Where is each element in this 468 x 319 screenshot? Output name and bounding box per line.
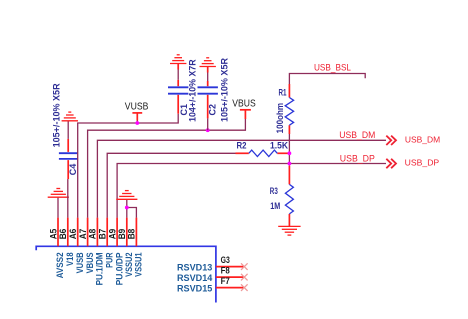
svg-text:RSVD13: RSVD13	[177, 263, 212, 273]
svg-text:105+/-10% X5R: 105+/-10% X5R	[220, 58, 230, 122]
pin B6 stub	[67, 218, 69, 247]
capacitor C1 plates	[168, 87, 188, 93]
VUSB power flag	[132, 113, 142, 121]
svg-text:104+/-10% X7R: 104+/-10% X7R	[188, 59, 198, 122]
svg-text:1.5K: 1.5K	[270, 141, 288, 151]
svg-text:B9: B9	[117, 229, 127, 240]
svg-text:F8: F8	[221, 266, 230, 276]
ground at pin A5 (AVSS2)	[48, 189, 69, 198]
resistor R1 pins	[288, 84, 290, 98]
resistor R3 pins	[288, 166, 290, 185]
pin F8 stub (no connect)	[216, 276, 244, 278]
svg-text:100ohm: 100ohm	[275, 103, 285, 134]
wire B9 up to junction	[126, 199, 128, 217]
pin B7 stub	[106, 218, 108, 247]
wire VUSB net: A6 up and right to C1	[78, 114, 179, 218]
svg-text:R2: R2	[237, 141, 247, 151]
svg-text:A6: A6	[68, 229, 78, 240]
svg-text:B7: B7	[98, 229, 108, 240]
wire A5 to ground	[57, 197, 59, 217]
capacitor C4 plates	[59, 153, 78, 159]
svg-text:USB_DP: USB_DP	[405, 157, 440, 167]
capacitor C2 plates	[198, 87, 218, 93]
connector U1 box outline	[36, 246, 216, 302]
pin A7 stub	[87, 218, 89, 247]
svg-text:A9: A9	[107, 229, 117, 240]
svg-text:VSSU2: VSSU2	[124, 252, 134, 277]
pin A5 stub	[57, 218, 59, 247]
svg-text:USB_BSL: USB_BSL	[314, 62, 351, 72]
ground above C2	[200, 58, 216, 67]
resistor R2 zigzag	[249, 150, 277, 156]
ground above C1	[170, 55, 186, 64]
svg-text:C2: C2	[208, 104, 218, 116]
svg-text:RSVD15: RSVD15	[177, 284, 212, 294]
capacitor C1 pins	[177, 95, 179, 114]
svg-text:C4: C4	[68, 163, 78, 175]
resistor R1 zigzag	[285, 98, 293, 126]
resistor R3 zigzag	[285, 184, 293, 214]
capacitor C2 pins	[207, 95, 209, 119]
svg-text:1M: 1M	[270, 201, 280, 211]
pin G3 stub (no connect)	[216, 266, 244, 268]
pin B8 stub	[135, 218, 137, 247]
svg-text:A7: A7	[78, 229, 88, 240]
wire USB_DP net: A9 up and right to port	[117, 164, 386, 218]
svg-text:B6: B6	[58, 229, 68, 240]
svg-text:PU.0/DP: PU.0/DP	[114, 252, 124, 285]
svg-text:RSVD14: RSVD14	[177, 273, 212, 283]
wire USB_DM net: A8 up and right to port	[97, 140, 386, 217]
svg-text:B8: B8	[127, 229, 137, 240]
svg-text:VUSB: VUSB	[125, 101, 149, 112]
svg-text:USB_DM: USB_DM	[339, 130, 375, 140]
wire junction to B8	[127, 208, 137, 218]
junction dot C2/VBUS	[206, 128, 210, 132]
wire C4 top to ground	[67, 121, 69, 139]
svg-text:R3: R3	[270, 186, 278, 196]
pin A6 stub	[77, 218, 79, 247]
svg-text:R1: R1	[279, 87, 287, 97]
svg-text:PUR: PUR	[104, 252, 114, 268]
pin B9 stub	[126, 218, 128, 247]
svg-text:PU.1/DM: PU.1/DM	[95, 252, 105, 285]
wire B6/V18 up to C4	[67, 179, 69, 218]
svg-text:USB_DP: USB_DP	[340, 153, 375, 163]
port arrow USB_DM	[386, 136, 396, 145]
svg-text:F7: F7	[221, 276, 230, 286]
svg-text:VBUS: VBUS	[232, 98, 256, 109]
svg-text:VBUS: VBUS	[85, 252, 95, 273]
junction dot R2/node	[288, 151, 292, 155]
no-connect X on F8	[241, 274, 248, 281]
pin F7 stub (no connect)	[216, 287, 244, 289]
ground below R3	[278, 226, 300, 235]
junction dot VSSU	[125, 206, 129, 210]
junction dot VUSB	[135, 121, 139, 125]
svg-text:USB_DM: USB_DM	[405, 134, 440, 144]
pin A8 stub	[96, 218, 98, 247]
svg-text:A5: A5	[48, 229, 58, 240]
wire USB_BSL net	[289, 74, 365, 85]
VBUS power flag	[240, 110, 251, 119]
ground at pins B9/B8 (VSSU)	[116, 191, 137, 200]
svg-text:G3: G3	[221, 255, 230, 265]
svg-text:V18: V18	[65, 252, 75, 266]
svg-text:A8: A8	[88, 229, 98, 240]
resistor R2 pins	[236, 152, 249, 154]
svg-text:AVSS2: AVSS2	[55, 252, 65, 278]
svg-text:105+/-10% X5R: 105+/-10% X5R	[51, 83, 61, 147]
no-connect X on G3	[241, 263, 248, 270]
wire R1 bottom through DM crossing to dots	[288, 134, 290, 166]
wire VBUS net: A7 up and right	[88, 119, 246, 218]
port arrow USB_DP	[386, 159, 396, 168]
wire PUR net: B7 up and right to R2	[107, 153, 236, 217]
ground above C4	[62, 112, 78, 121]
junction dot USB_DP/node	[288, 162, 292, 166]
pin A9 stub	[116, 218, 118, 247]
capacitor C4 pins	[67, 160, 69, 179]
svg-text:VUSB: VUSB	[75, 252, 85, 273]
svg-text:VSSU1: VSSU1	[134, 252, 144, 277]
no-connect X on F7	[241, 284, 248, 291]
